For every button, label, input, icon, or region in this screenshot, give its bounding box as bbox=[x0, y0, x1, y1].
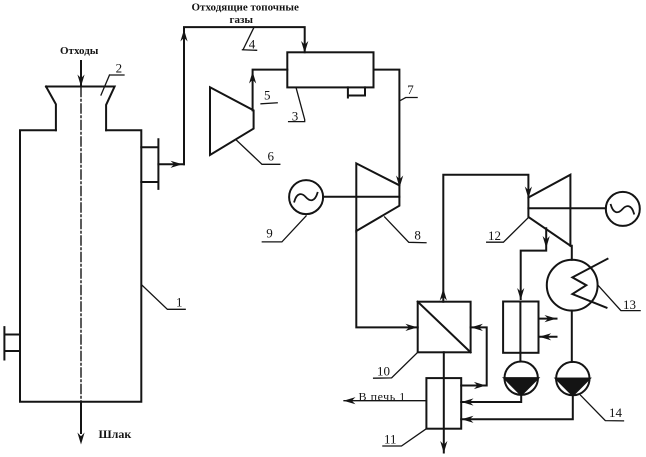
arrow recirc into hx 10 bbox=[471, 324, 483, 331]
leader 7 bbox=[401, 98, 418, 101]
arrow slag down bbox=[77, 433, 84, 445]
leader 4 bbox=[242, 27, 256, 50]
arrow into chamber 3 bbox=[301, 41, 308, 53]
hx 10 box bbox=[418, 302, 471, 353]
arrow riser up bbox=[180, 30, 187, 42]
recirculation wire 11 to 10 bbox=[461, 327, 487, 385]
turbine 12 bbox=[528, 175, 570, 246]
wire deaerator to pump left bbox=[519, 353, 521, 362]
hx 10 diagonal bbox=[418, 302, 471, 353]
svg-text:газы: газы bbox=[230, 14, 254, 26]
arrow deaerator stub out bbox=[545, 315, 557, 322]
svg-text:В печь 1: В печь 1 bbox=[359, 389, 406, 403]
deaerator internal line bbox=[519, 302, 521, 353]
furnace right outlet duct bbox=[141, 139, 158, 189]
leader 9 bbox=[262, 216, 306, 242]
pump right triangle bbox=[556, 379, 589, 396]
wire turbine 12 exhaust to hx 13 bbox=[570, 246, 571, 260]
svg-text:11: 11 bbox=[384, 431, 397, 446]
wire 5 compressor to chamber bbox=[253, 70, 288, 111]
leader 8 bbox=[385, 217, 426, 243]
leader 5 bbox=[261, 103, 277, 104]
wire pump right to mixer 11 bbox=[461, 395, 573, 419]
hx 13 coil bbox=[572, 259, 607, 308]
mixer 11 box bbox=[426, 378, 461, 429]
svg-text:12: 12 bbox=[488, 228, 501, 243]
arrow outlet right bbox=[171, 161, 183, 168]
arrow mixer outlet down bbox=[440, 441, 447, 453]
shaft turbine 12 to generator bbox=[528, 207, 605, 209]
pump right diameter bbox=[556, 378, 589, 380]
wire extraction turbine 12 bbox=[521, 228, 547, 299]
wire to furnace bbox=[344, 400, 426, 402]
svg-text:13: 13 bbox=[623, 297, 636, 312]
wire hx 10 steam to turbine 12 bbox=[443, 175, 528, 302]
svg-text:4: 4 bbox=[249, 37, 256, 52]
shaft generator 9 to turbine 8 bbox=[323, 196, 399, 198]
svg-text:Отходящие топочные: Отходящие топочные bbox=[192, 1, 299, 13]
leader 13 bbox=[599, 286, 641, 311]
svg-text:Отходы: Отходы bbox=[60, 45, 99, 57]
wire 7 chamber to turbine 8 bbox=[374, 70, 400, 186]
generator 9 circle bbox=[289, 180, 323, 214]
right generator sine bbox=[611, 205, 634, 214]
furnace centerline bbox=[80, 88, 82, 402]
deaerator stub in bbox=[539, 336, 557, 338]
pump left circle bbox=[505, 362, 538, 395]
leader 12 bbox=[487, 217, 529, 242]
arrow pump right into 11 bbox=[462, 416, 474, 423]
chamber 3 bottom tab bbox=[348, 87, 365, 97]
svg-text:2: 2 bbox=[116, 61, 123, 76]
svg-text:3: 3 bbox=[292, 108, 299, 123]
leader 14 bbox=[581, 395, 624, 421]
arrow deaerator stub in bbox=[539, 333, 551, 340]
leader 1 bbox=[142, 285, 185, 309]
turbine 8 bbox=[356, 163, 399, 231]
arrow extraction down bbox=[543, 236, 550, 248]
furnace body 1 bbox=[20, 130, 141, 401]
pump left diameter bbox=[505, 377, 538, 379]
wire pump left to mixer 11 bbox=[461, 395, 521, 402]
right generator circle bbox=[606, 192, 640, 226]
leader 3 bbox=[289, 87, 305, 121]
hx 13 circle bbox=[547, 260, 598, 311]
arrow waste down bbox=[80, 61, 82, 87]
wire hx 13 to pump right bbox=[571, 311, 573, 362]
arrow to furnace left bbox=[344, 397, 356, 404]
pump right circle bbox=[556, 362, 589, 395]
arrow steam up from hx 10 bbox=[440, 289, 447, 301]
arrow into turbine 12 bbox=[525, 187, 532, 199]
arrow wire 7 into turbine 8 bbox=[396, 176, 403, 188]
deaerator stub out bbox=[539, 318, 557, 320]
svg-text:10: 10 bbox=[377, 364, 390, 379]
svg-text:1: 1 bbox=[176, 294, 183, 309]
svg-text:9: 9 bbox=[266, 225, 273, 240]
svg-text:8: 8 bbox=[414, 228, 421, 243]
compressor 6 bbox=[210, 87, 254, 155]
furnace hopper 2 bbox=[46, 87, 115, 131]
leader 6 bbox=[236, 140, 280, 165]
leader 10 bbox=[374, 352, 418, 378]
mixer 11 internal line bbox=[443, 352, 445, 452]
arrow wire 5 up bbox=[249, 72, 256, 84]
svg-text:5: 5 bbox=[264, 88, 271, 103]
svg-text:Шлак: Шлак bbox=[99, 427, 132, 441]
svg-text:6: 6 bbox=[268, 149, 275, 164]
svg-text:7: 7 bbox=[407, 82, 414, 97]
arrow recirc right bbox=[474, 382, 486, 389]
furnace left stub bbox=[4, 327, 20, 359]
arrow pump left into 11 bbox=[462, 398, 474, 405]
wire flue-gas riser bbox=[184, 27, 305, 164]
deaerator box bbox=[503, 302, 538, 353]
leader 2 bbox=[101, 75, 124, 95]
arrow exhaust into hx 10 bbox=[405, 324, 417, 331]
leader 11 bbox=[383, 429, 427, 446]
pump left triangle bbox=[505, 378, 538, 395]
arrow into deaerator bbox=[517, 288, 524, 300]
combustion chamber 3 bbox=[287, 52, 373, 87]
generator 9 sine bbox=[294, 193, 317, 202]
svg-text:14: 14 bbox=[609, 405, 623, 420]
wire outlet to riser bbox=[158, 163, 184, 165]
wire turbine 8 exhaust to hx 10 bbox=[356, 231, 417, 327]
